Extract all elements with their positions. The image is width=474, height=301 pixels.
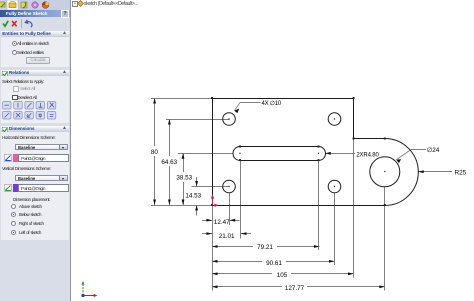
svg-text:21.01: 21.01 (219, 233, 235, 240)
svg-text:105: 105 (277, 272, 288, 279)
svg-text:64.63: 64.63 (161, 159, 177, 166)
svg-text:14.53: 14.53 (185, 192, 201, 199)
svg-text:79.21: 79.21 (257, 244, 273, 251)
svg-text:2XR4.80: 2XR4.80 (356, 152, 379, 158)
svg-text:80: 80 (151, 149, 159, 156)
svg-text:R25: R25 (455, 170, 467, 177)
svg-text:12.47: 12.47 (214, 219, 230, 226)
svg-text:∅24: ∅24 (427, 147, 440, 154)
svg-text:127.77: 127.77 (285, 285, 305, 292)
svg-text:4X ∅10: 4X ∅10 (261, 100, 281, 107)
svg-text:38.53: 38.53 (176, 175, 192, 182)
svg-text:90.61: 90.61 (266, 260, 282, 267)
